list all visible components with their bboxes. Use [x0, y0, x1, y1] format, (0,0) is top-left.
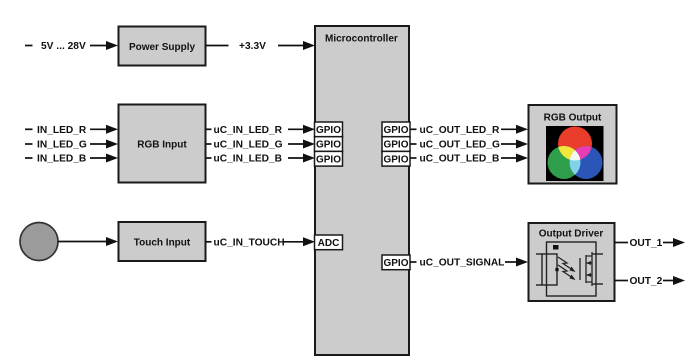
- arrow: OUT_1 output: [663, 238, 685, 247]
- pin GPIO (uC_IN_LED_B): [315, 151, 343, 166]
- svg-text:GPIO: GPIO: [316, 154, 341, 165]
- wire: uC_IN_LED_G stub: [206, 143, 212, 145]
- icon: MOSFET channel line: [585, 255, 587, 283]
- svg-text:+3.3V: +3.3V: [239, 41, 266, 52]
- wire: OUT_1 from Output Driver: [615, 242, 629, 244]
- wire: uC_IN_LED_B stub: [206, 157, 212, 159]
- icon: output pin bottom: [592, 283, 603, 285]
- block Power Supply: [119, 27, 206, 66]
- icon: photon arrow 1: [558, 257, 576, 272]
- svg-text:uC_IN_LED_B: uC_IN_LED_B: [214, 154, 283, 165]
- icon: output bus: [591, 252, 593, 286]
- wire: uC_OUT_LED_B stub: [410, 157, 417, 159]
- pin GPIO (uC_OUT_LED_B): [382, 151, 410, 166]
- icon: MOSFET bottom stubs: [586, 273, 592, 282]
- svg-text:GPIO: GPIO: [383, 154, 408, 165]
- svg-text:GPIO: GPIO: [316, 125, 341, 136]
- svg-text:uC_IN_LED_G: uC_IN_LED_G: [214, 140, 283, 151]
- pin GPIO (uC_OUT_LED_R): [382, 122, 410, 137]
- svg-text:GPIO: GPIO: [316, 140, 341, 151]
- wire: 5V input stub: [25, 45, 33, 47]
- arrow: uC_OUT_LED_G into RGB Output: [501, 140, 528, 149]
- icon: MOSFET gate line: [579, 258, 581, 280]
- arrow: uC_IN_TOUCH into ADC: [283, 237, 315, 246]
- svg-text:Microcontroller: Microcontroller: [325, 34, 398, 45]
- svg-text:5V ... 28V: 5V ... 28V: [41, 41, 86, 52]
- svg-text:RGB Input: RGB Input: [137, 140, 187, 151]
- block RGB Input: [119, 105, 206, 183]
- icon: photon arrow 2: [558, 265, 576, 280]
- block Microcontroller: [315, 26, 409, 355]
- arrow: +3.3V into Microcontroller: [278, 41, 315, 50]
- arrow: uC_IN_LED_R into GPIO: [288, 125, 315, 134]
- pin ADC: [315, 235, 343, 250]
- svg-text:uC_OUT_LED_G: uC_OUT_LED_G: [420, 140, 500, 151]
- svg-text:uC_OUT_LED_B: uC_OUT_LED_B: [420, 154, 500, 165]
- icon: pin-1 marker: [553, 245, 559, 250]
- block Output Driver: [529, 223, 615, 301]
- wire: uC_OUT_LED_G stub: [410, 143, 417, 145]
- svg-text:uC_OUT_SIGNAL: uC_OUT_SIGNAL: [420, 258, 505, 269]
- svg-text:GPIO: GPIO: [383, 140, 408, 151]
- svg-text:uC_IN_LED_R: uC_IN_LED_R: [214, 125, 283, 136]
- svg-text:uC_OUT_LED_R: uC_OUT_LED_R: [420, 125, 500, 136]
- wire: uC_OUT_LED_R stub: [410, 128, 417, 130]
- pin GPIO (uC_OUT_SIGNAL): [382, 255, 410, 270]
- block Touch Input: [119, 222, 206, 261]
- svg-text:uC_IN_TOUCH: uC_IN_TOUCH: [214, 238, 285, 249]
- arrow: IN_LED_B into RGB Input: [90, 154, 118, 163]
- svg-text:OUT_1: OUT_1: [630, 238, 663, 249]
- pin GPIO (uC_IN_LED_R): [315, 122, 343, 137]
- arrow: OUT_2 output: [663, 276, 685, 285]
- icon: input pin bottom: [536, 284, 542, 286]
- touch sensor pad: [20, 223, 58, 261]
- svg-text:OUT_2: OUT_2: [630, 276, 663, 287]
- arrow: uC_OUT_SIGNAL into Output Driver: [505, 258, 528, 267]
- block RGB Output: [529, 105, 617, 184]
- wire: uC_OUT_SIGNAL stub: [410, 261, 417, 263]
- icon: node on LED block: [555, 268, 558, 271]
- pin GPIO (uC_IN_LED_G): [315, 137, 343, 152]
- arrow: IN_LED_G into RGB Input: [90, 140, 118, 149]
- svg-text:Output Driver: Output Driver: [539, 229, 604, 240]
- arrow: uC_OUT_LED_R into RGB Output: [501, 125, 528, 134]
- arrow: uC_OUT_LED_B into RGB Output: [501, 154, 528, 163]
- svg-text:GPIO: GPIO: [383, 125, 408, 136]
- wire: uC_IN_LED_R stub: [206, 128, 212, 130]
- arrow: uC_IN_LED_G into GPIO: [288, 140, 315, 149]
- pin GPIO (uC_OUT_LED_G): [382, 137, 410, 152]
- wire: IN_LED_R stub: [25, 128, 33, 130]
- wire: OUT_2 from Output Driver: [615, 280, 629, 282]
- svg-text:IN_LED_G: IN_LED_G: [37, 140, 87, 151]
- arrow: touch pad into Touch Input: [58, 237, 118, 246]
- arrow: 5V into Power Supply: [90, 41, 118, 50]
- svg-text:GPIO: GPIO: [383, 258, 408, 269]
- wire: uC_IN_TOUCH stub: [206, 241, 212, 243]
- arrow: uC_IN_LED_B into GPIO: [288, 154, 315, 163]
- arrow: IN_LED_R into RGB Input: [90, 125, 118, 134]
- svg-text:IN_LED_R: IN_LED_R: [37, 125, 87, 136]
- svg-text:ADC: ADC: [318, 238, 340, 249]
- svg-text:IN_LED_B: IN_LED_B: [37, 154, 86, 165]
- icon: MOSFET top stubs: [586, 256, 592, 265]
- icon: input LED block: [542, 254, 557, 285]
- icon: output pin top: [592, 253, 603, 255]
- wire: IN_LED_G stub: [25, 143, 33, 145]
- icon: RGB additive colour mix: [546, 126, 604, 181]
- wire: Power Supply to +3.3V label: [206, 45, 229, 47]
- icon: input pin top: [536, 253, 542, 255]
- svg-text:Touch Input: Touch Input: [134, 238, 191, 249]
- wire: IN_LED_B stub: [25, 157, 33, 159]
- icon: solid-state relay outline: [547, 242, 597, 296]
- svg-text:Power Supply: Power Supply: [129, 42, 196, 53]
- svg-text:RGB Output: RGB Output: [544, 113, 602, 124]
